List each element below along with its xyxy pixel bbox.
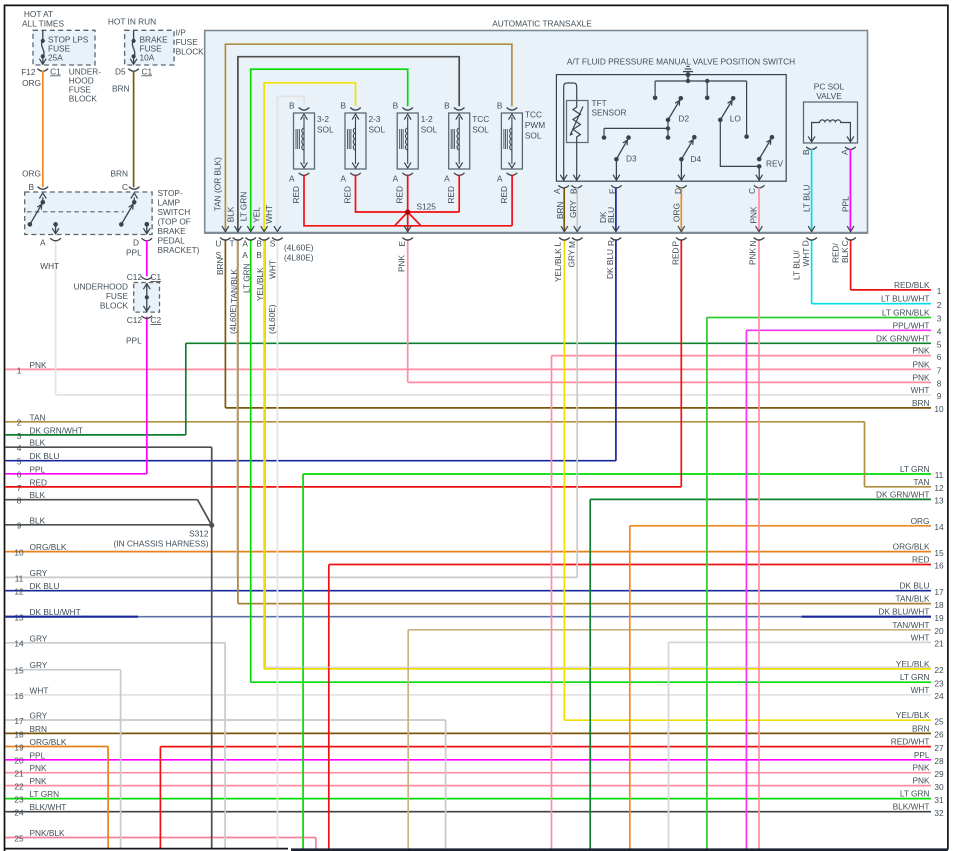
svg-text:BLK/WHT: BLK/WHT: [30, 802, 67, 812]
riser RED/WHT exit 27: [159, 747, 161, 849]
svg-text:25: 25: [934, 716, 944, 726]
wire GRY companion of YEL/BLK (4L80E): [266, 240, 932, 668]
svg-text:DK BLU/WHT: DK BLU/WHT: [878, 607, 929, 617]
svg-text:LAMP: LAMP: [158, 198, 181, 208]
riser PPL/WHT exit 4: [745, 330, 747, 849]
svg-text:32: 32: [934, 808, 944, 818]
svg-text:PEDAL: PEDAL: [158, 236, 186, 246]
svg-text:25A: 25A: [48, 52, 63, 62]
svg-text:ALL TIMES: ALL TIMES: [22, 18, 64, 28]
riser TAN entry 2 to exit 12: [864, 422, 866, 487]
svg-text:LT GRN: LT GRN: [900, 464, 930, 474]
svg-text:FUSE: FUSE: [106, 291, 129, 301]
svg-text:GRY: GRY: [30, 633, 48, 643]
svg-text:DK BLU: DK BLU: [900, 581, 930, 591]
svg-text:ORG/BLK: ORG/BLK: [30, 542, 67, 552]
wire PNK from REV: [754, 185, 765, 188]
svg-text:L: L: [553, 242, 563, 247]
wire feeder BLK to TCC SOL: [238, 57, 459, 233]
wire exit 4 PPL/WHT: [746, 329, 931, 331]
svg-text:PPL: PPL: [30, 464, 46, 474]
node contact right drop: [746, 81, 748, 134]
svg-text:15: 15: [934, 548, 944, 558]
svg-text:RED/BLK: RED/BLK: [894, 280, 930, 290]
svg-text:B: B: [256, 250, 262, 260]
svg-text:S312: S312: [189, 529, 209, 539]
svg-text:D2: D2: [679, 114, 690, 124]
wire circuit 16 WHT: [6, 694, 932, 696]
switch D2: [679, 96, 684, 101]
svg-text:2: 2: [937, 300, 942, 310]
svg-text:BRN: BRN: [30, 724, 48, 734]
underhood fuse block C12: [142, 277, 153, 280]
svg-text:RED: RED: [912, 555, 930, 565]
riser TAN/WHT exit 20: [407, 630, 409, 849]
automatic transaxle box: [205, 31, 868, 233]
svg-text:28: 28: [934, 756, 944, 766]
wire GRY TFT B: [571, 185, 582, 188]
riser PNK E to exit 8: [407, 239, 409, 382]
svg-text:PNK: PNK: [912, 346, 930, 356]
riser WHT stop-lamp A to exit 9: [55, 240, 57, 395]
wire RED solenoid bus: [304, 175, 512, 226]
svg-text:8: 8: [17, 496, 22, 506]
svg-text:RED: RED: [670, 247, 680, 265]
svg-text:B: B: [29, 182, 35, 192]
svg-text:BLOCK: BLOCK: [69, 94, 98, 104]
transaxle box bottom edge connectors: [222, 226, 229, 232]
wire circuit 23 LT GRN: [6, 798, 932, 800]
svg-text:VALVE: VALVE: [816, 91, 842, 101]
svg-text:P: P: [671, 241, 681, 247]
riser LT GRN/BLK exit 3: [706, 318, 708, 849]
wire exit 2 LT BLU/WHT: [812, 303, 931, 305]
svg-text:DK BLU: DK BLU: [605, 249, 615, 279]
svg-text:DK GRN/WHT: DK GRN/WHT: [876, 489, 929, 499]
svg-text:PNK: PNK: [30, 763, 48, 773]
wire ORG from D4: [676, 185, 687, 188]
svg-text:BRN: BRN: [215, 257, 225, 275]
svg-text:DK BLU: DK BLU: [30, 451, 60, 461]
svg-text:1-2: 1-2: [421, 114, 433, 124]
svg-text:3: 3: [17, 431, 22, 441]
svg-text:PPL: PPL: [914, 750, 930, 760]
wire exit 23 LT GRN: [251, 681, 931, 683]
svg-text:20: 20: [934, 626, 944, 636]
svg-text:SOL: SOL: [472, 125, 489, 135]
svg-text:B: B: [444, 101, 450, 111]
svg-text:PPL: PPL: [126, 248, 142, 258]
svg-text:C1: C1: [142, 66, 153, 76]
svg-text:BRAKE: BRAKE: [158, 226, 187, 236]
riser ORG exit 14: [629, 526, 631, 849]
svg-text:ORG: ORG: [911, 516, 930, 526]
svg-text:LT GRN/BLK: LT GRN/BLK: [882, 308, 930, 318]
svg-text:17: 17: [14, 716, 24, 726]
svg-text:PNK/BLK: PNK/BLK: [30, 828, 66, 838]
svg-text:19: 19: [14, 742, 24, 752]
svg-text:TAN/WHT: TAN/WHT: [892, 620, 929, 630]
svg-text:BRN: BRN: [112, 84, 130, 94]
wire LT BLU PC SOL B: [811, 149, 813, 232]
wire WHT companion of TAN/BLK (4L80E): [236, 240, 238, 578]
svg-text:E: E: [397, 241, 407, 247]
switch LO: [731, 96, 736, 101]
svg-text:PNK: PNK: [912, 359, 930, 369]
solenoid 2-3 SOL: [350, 108, 361, 111]
riser LT BLU/WHT to exit 2: [811, 239, 813, 304]
svg-text:LO: LO: [730, 114, 742, 124]
fuse STOP LPS FUSE 25A: [33, 30, 95, 65]
splice S125: [405, 209, 410, 214]
stop-lamp switch right contact C-D: [129, 187, 140, 190]
svg-text:HOT IN RUN: HOT IN RUN: [108, 17, 156, 27]
wire ORG fuse to stop-lamp switch: [42, 71, 44, 188]
svg-text:ORG: ORG: [22, 78, 41, 88]
svg-text:27: 27: [934, 743, 944, 753]
svg-text:LT GRN: LT GRN: [30, 789, 60, 799]
node contact mid: [706, 81, 708, 96]
svg-text:SOL: SOL: [317, 125, 334, 135]
svg-text:S125: S125: [417, 202, 437, 212]
svg-text:9: 9: [17, 521, 22, 531]
svg-text:TAN/BLK: TAN/BLK: [229, 269, 239, 303]
svg-text:TCC: TCC: [472, 114, 489, 124]
wire DK BLU from D3: [611, 185, 622, 188]
svg-text:I/P: I/P: [176, 28, 187, 38]
svg-text:9: 9: [937, 391, 942, 401]
wire PPL stop-lamp D to underhood fuse block: [146, 240, 148, 276]
svg-text:7: 7: [17, 483, 22, 493]
wire circuit 7 RED: [6, 486, 682, 488]
svg-text:14: 14: [14, 639, 24, 649]
svg-text:B: B: [289, 101, 295, 111]
riser WHT exit 21: [668, 642, 670, 848]
svg-text:BLK: BLK: [840, 247, 850, 263]
svg-text:2: 2: [17, 418, 22, 428]
svg-text:12: 12: [14, 587, 24, 597]
svg-text:B: B: [393, 101, 399, 111]
svg-text:21: 21: [934, 639, 944, 649]
solenoid 3-2 SOL: [299, 108, 310, 111]
svg-text:26: 26: [934, 730, 944, 740]
svg-text:PPL: PPL: [840, 196, 850, 212]
svg-text:C12: C12: [127, 272, 143, 282]
svg-text:C: C: [122, 182, 128, 192]
switch D4: [692, 135, 697, 140]
wire exit 12 TAN: [865, 486, 932, 488]
svg-text:U: U: [215, 239, 221, 249]
riser RED P to entry 7: [680, 239, 682, 487]
svg-text:AUTOMATIC TRANSAXLE: AUTOMATIC TRANSAXLE: [492, 19, 592, 29]
wire circuit 20 PPL: [6, 759, 932, 761]
svg-text:PNK: PNK: [748, 247, 758, 265]
svg-text:C1: C1: [151, 272, 162, 282]
svg-text:SOL: SOL: [421, 125, 438, 135]
svg-text:C1: C1: [50, 66, 61, 76]
svg-text:B: B: [340, 101, 346, 111]
svg-text:15: 15: [14, 666, 24, 676]
svg-text:BRN: BRN: [912, 398, 930, 408]
solenoid PWM SOL: [507, 108, 518, 111]
svg-text:GRY: GRY: [568, 200, 578, 218]
svg-text:16: 16: [14, 691, 24, 701]
svg-text:25: 25: [14, 833, 24, 843]
svg-text:A: A: [444, 174, 450, 184]
wire exit 16 RED: [329, 564, 931, 566]
wire RED from 1-2 SOL A: [402, 173, 413, 176]
riser PNK/BLK entry 25: [315, 838, 317, 849]
svg-text:16: 16: [934, 561, 944, 571]
svg-text:YEL/BLK: YEL/BLK: [896, 710, 930, 720]
svg-text:RED/WHT: RED/WHT: [891, 737, 930, 747]
wire exit 13 DK GRN/WHT: [590, 498, 931, 500]
wire DK BLU/WHT exit 19 heavy segment: [802, 616, 931, 618]
riser TAN/BLK T to exit 18: [237, 239, 239, 603]
svg-text:31: 31: [934, 795, 944, 805]
svg-text:BLK: BLK: [30, 515, 46, 525]
wire exit 14 ORG: [630, 525, 931, 527]
riser LT GRN A to exit 23: [250, 239, 252, 682]
svg-text:(4L60E): (4L60E): [228, 304, 238, 334]
svg-text:PC SOL: PC SOL: [814, 82, 845, 92]
wire exit 3 LT GRN/BLK: [707, 317, 931, 319]
wire circuit 21 PNK: [6, 772, 932, 774]
wire circuit 11 GRY: [6, 576, 578, 578]
svg-text:24: 24: [934, 691, 944, 701]
riser GRY entry 17: [445, 720, 447, 849]
svg-text:T: T: [230, 239, 235, 249]
splice S312: [209, 523, 214, 528]
svg-text:22: 22: [934, 665, 944, 675]
wire circuit 13 DK BLU/WHT: [6, 616, 932, 618]
svg-text:RED: RED: [395, 186, 405, 204]
wire exit 27 RED/WHT: [160, 746, 931, 748]
solenoid 1-2 SOL: [402, 108, 413, 111]
svg-text:UNDERHOOD: UNDERHOOD: [74, 282, 128, 292]
svg-text:D5: D5: [115, 66, 126, 76]
wire circuit 19 ORG/BLK: [6, 746, 109, 748]
wire exit 18 TAN/BLK: [238, 603, 931, 605]
svg-text:YEL: YEL: [252, 207, 262, 223]
svg-text:20: 20: [14, 756, 24, 766]
wire DK BLU/WHT entry 13 heavy segment: [6, 616, 139, 618]
wire RED from 2-3 SOL A: [350, 173, 361, 176]
TFT sensor: [564, 83, 577, 181]
svg-text:C: C: [747, 188, 757, 194]
svg-text:(4L80E): (4L80E): [284, 252, 314, 262]
svg-text:24: 24: [14, 808, 24, 818]
svg-text:BRACKET): BRACKET): [158, 245, 200, 255]
riser BLK entry 4 through S312: [211, 447, 213, 849]
svg-text:C: C: [840, 240, 850, 246]
svg-text:RED: RED: [446, 186, 456, 204]
svg-text:GRY: GRY: [30, 568, 48, 578]
svg-text:SWITCH: SWITCH: [158, 207, 191, 217]
svg-text:C2: C2: [151, 315, 162, 325]
svg-text:5: 5: [17, 457, 22, 467]
svg-text:A: A: [497, 174, 503, 184]
svg-text:14: 14: [934, 522, 944, 532]
svg-text:3: 3: [937, 314, 942, 324]
riser YEL/BLK B to exit 22: [263, 239, 265, 669]
wire feeder LT GRN to 1-2 SOL: [251, 69, 408, 232]
wire feeder YEL to 2-3 SOL: [264, 83, 355, 233]
svg-text:TAN: TAN: [914, 477, 930, 487]
riser GRY entry 15: [120, 670, 122, 849]
riser PNK N to bottom: [758, 239, 760, 849]
svg-text:C12: C12: [127, 315, 143, 325]
svg-text:WHT: WHT: [911, 385, 930, 395]
svg-text:PNK: PNK: [749, 206, 759, 224]
svg-text:12: 12: [934, 483, 944, 493]
ground symbol: [687, 72, 689, 81]
svg-text:ORG: ORG: [672, 203, 682, 222]
svg-text:18: 18: [14, 729, 24, 739]
svg-text:LT BLU: LT BLU: [802, 185, 812, 212]
switch D3: [626, 135, 631, 140]
svg-text:RED/: RED/: [831, 242, 841, 263]
riser PPL entry 6 to fuse block: [146, 317, 148, 474]
svg-text:17: 17: [934, 587, 944, 597]
svg-text:PPL: PPL: [30, 750, 46, 760]
svg-text:6: 6: [17, 470, 22, 480]
riser DK GRN/WHT entry 3 to exit 5: [185, 343, 187, 435]
svg-text:11: 11: [935, 470, 944, 480]
svg-text:(IN CHASSIS HARNESS): (IN CHASSIS HARNESS): [114, 539, 209, 549]
svg-text:BLK: BLK: [226, 206, 236, 222]
svg-text:GRY: GRY: [30, 660, 48, 670]
svg-text:WHT: WHT: [264, 205, 274, 224]
svg-text:3-2: 3-2: [317, 114, 329, 124]
svg-text:TAN (OR BLK): TAN (OR BLK): [212, 157, 222, 211]
wire exit 1 RED/BLK: [851, 289, 931, 291]
svg-text:18: 18: [934, 600, 944, 610]
svg-text:A/T FLUID PRESSURE MANUAL VALV: A/T FLUID PRESSURE MANUAL VALVE POSITION…: [567, 57, 795, 67]
wire circuit 17 GRY: [6, 719, 446, 721]
svg-text:TAN: TAN: [30, 412, 46, 422]
svg-text:N: N: [748, 241, 758, 247]
svg-text:WHT: WHT: [40, 261, 59, 271]
svg-text:D4: D4: [691, 154, 702, 164]
switch bus: [655, 80, 747, 82]
wire circuit 25 PNK/BLK: [6, 837, 316, 839]
svg-text:(TOP OF: (TOP OF: [158, 217, 191, 227]
svg-text:D: D: [133, 238, 139, 248]
svg-text:30: 30: [934, 782, 944, 792]
svg-text:23: 23: [934, 678, 944, 688]
svg-text:WHT: WHT: [30, 685, 49, 695]
wire RED from TCC SOL A: [454, 173, 465, 176]
svg-text:SOL: SOL: [369, 125, 386, 135]
riser LT GRN exit 11: [302, 474, 304, 849]
svg-text:PNK: PNK: [397, 254, 407, 272]
svg-text:10: 10: [934, 404, 944, 414]
svg-text:RED: RED: [342, 186, 352, 204]
svg-text:YEL/BLK: YEL/BLK: [553, 248, 563, 282]
svg-text:GRY: GRY: [567, 249, 577, 267]
riser BRN U/S to exit 10: [224, 239, 226, 408]
svg-text:WHT: WHT: [801, 248, 811, 267]
svg-text:F12: F12: [21, 67, 36, 77]
svg-text:BLOCK: BLOCK: [100, 301, 129, 311]
wire circuit 24 BLK/WHT: [6, 811, 932, 813]
wire circuit 18 BRN: [6, 732, 932, 734]
riser WHT S to bottom: [276, 239, 278, 849]
svg-text:B: B: [801, 149, 811, 155]
svg-text:TAN/BLK: TAN/BLK: [896, 594, 930, 604]
wire feeder WHT to 3-2 SOL: [277, 96, 304, 232]
riser DK BLU R to entry 5: [615, 239, 617, 461]
svg-text:1: 1: [17, 365, 22, 375]
svg-text:DK GRN/WHT: DK GRN/WHT: [876, 333, 929, 343]
svg-text:10: 10: [14, 548, 24, 558]
wire TFT link: [604, 127, 668, 129]
svg-text:STOP-: STOP-: [158, 188, 183, 198]
stop-lamp switch internal dashed link: [27, 211, 124, 213]
wire exit 8 PNK: [408, 381, 931, 383]
svg-text:D3: D3: [626, 154, 637, 164]
svg-text:11: 11: [15, 573, 24, 583]
wire BRN fuse to stop-lamp switch: [133, 71, 135, 188]
svg-text:BLK/WHT: BLK/WHT: [893, 802, 930, 812]
svg-text:BRN: BRN: [912, 723, 930, 733]
svg-text:M: M: [567, 241, 577, 248]
wire 8 BLK diagonal to S312: [198, 500, 212, 526]
switch REV: [770, 135, 775, 140]
svg-text:A: A: [840, 149, 850, 155]
svg-text:A: A: [552, 188, 562, 194]
wire circuit 9 BLK: [6, 524, 210, 526]
svg-text:(4L60E): (4L60E): [267, 304, 277, 334]
wire circuit 8 BLK: [6, 499, 198, 501]
svg-text:13: 13: [934, 496, 944, 506]
svg-text:LT GRN: LT GRN: [242, 263, 252, 293]
wire RED from 3-2 SOL A: [299, 173, 310, 176]
stop-lamp switch left contact B-A: [38, 187, 49, 190]
svg-text:WHT: WHT: [267, 260, 277, 279]
svg-text:YEL/BLK: YEL/BLK: [255, 267, 265, 301]
svg-text:D: D: [801, 240, 811, 246]
svg-text:WHT: WHT: [911, 685, 930, 695]
svg-text:DK GRN/WHT: DK GRN/WHT: [30, 425, 83, 435]
wire exit 11 LT GRN: [303, 473, 931, 475]
riser DK GRN/WHT exit 13: [589, 499, 591, 848]
svg-text:FUSE: FUSE: [176, 37, 199, 47]
svg-text:1: 1: [937, 286, 942, 296]
svg-text:7: 7: [937, 366, 942, 376]
svg-text:19: 19: [934, 613, 944, 623]
svg-text:LT BLU/: LT BLU/: [792, 250, 802, 280]
svg-text:A: A: [242, 250, 248, 260]
svg-text:6: 6: [937, 352, 942, 362]
svg-text:TCC: TCC: [525, 110, 542, 120]
svg-text:BRN: BRN: [111, 169, 129, 179]
svg-text:4: 4: [937, 327, 942, 337]
svg-text:ORG/BLK: ORG/BLK: [893, 542, 930, 552]
svg-text:LT GRN: LT GRN: [238, 192, 248, 222]
svg-text:A: A: [40, 238, 46, 248]
wire RED from PWM SOL A: [507, 173, 518, 176]
svg-text:E: E: [608, 188, 618, 194]
svg-text:B: B: [497, 101, 503, 111]
riser PNK exit 6: [551, 356, 553, 849]
svg-text:D: D: [673, 188, 683, 194]
riser YEL/BLK L to exit 25: [563, 239, 565, 720]
svg-text:DK BLU: DK BLU: [30, 581, 60, 591]
riser RED/BLK to exit 1: [850, 239, 852, 290]
wire feeder TAN (OR BLK) to PWM SOL: [225, 44, 512, 232]
